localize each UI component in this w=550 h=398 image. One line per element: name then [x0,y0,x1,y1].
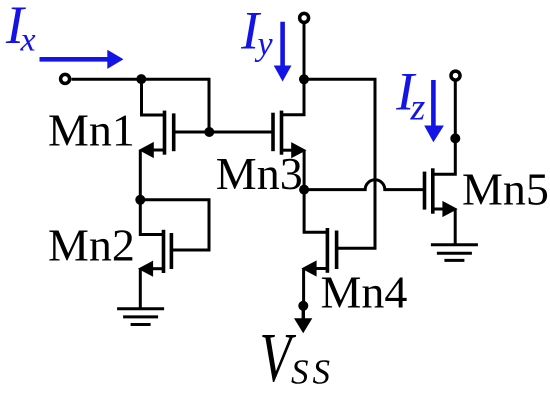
current arrow Iz [424,80,444,142]
Mn1 source lead [152,149,165,152]
wire: corner down to Mn1 gate level [208,78,211,132]
junction dot at gate rail tie [204,127,214,137]
ground symbol under Mn2 [117,309,164,325]
Mn4 source wire down to VSS [302,269,305,307]
Mn1 gate bar [172,113,176,151]
label VSS [260,320,335,397]
Mn4 drain lead from node D [304,190,327,233]
Mn4 channel bar [326,228,330,273]
transistor Mn4 [301,190,336,306]
terminal Z (open circle) [451,71,460,80]
transistor Mn5 [425,168,458,244]
node A junction dot [136,74,146,84]
Mn1 channel bar [163,111,167,155]
Mn1 source arrow [139,142,154,158]
Mn1 source wire down [139,150,142,200]
Mn3 source arrow [291,142,306,158]
wire: node C to Mn4 gate (right rail with corner) [304,79,375,248]
svg-text:x: x [20,22,36,59]
Mn2 gate bar [170,233,174,269]
svg-text:Mn1: Mn1 [48,105,135,156]
transistor Mn2 [138,200,209,309]
Mn2 channel bar [162,230,166,273]
VSS arrow [294,306,312,333]
Mn1 drain lead from node A [142,79,165,115]
Mn2 source wire to ground [139,269,142,309]
Mn5 gate bar [423,172,427,210]
label Iy [240,0,273,63]
wire: node D to Mn5 gate with hop over right rail [304,180,424,190]
wire: X terminal to node A and on to drain/gate tie corner [72,78,210,81]
VSS node dot [298,301,308,311]
Mn2 source lead [152,267,164,270]
terminal Y (open circle) [300,13,309,22]
wire: Z terminal down to Mn5 drain [433,82,456,175]
current arrow Ix [40,50,124,69]
current arrow Iy [274,22,292,82]
svg-text:Mn3: Mn3 [216,148,303,199]
label Ix [5,0,36,59]
svg-text:z: z [410,87,426,129]
Mn3 channel bar [280,111,284,155]
transistor Mn3 [273,79,306,189]
Mn3 source wire down to node D [303,150,306,189]
label Iz [395,61,425,128]
node B junction dot [135,195,145,205]
Mn5 source lead [433,208,443,211]
Mn4 gate bar [335,231,339,270]
node C junction dot [299,74,309,84]
svg-text:Mn4: Mn4 [321,267,408,318]
Mn4 source arrow [301,260,316,276]
wire: Mn1 gate to Mn3 gate (node X gate rail) [174,131,273,134]
Mn5 channel bar [431,168,435,213]
Mn5 source arrow [442,201,457,217]
svg-text:SS: SS [291,353,334,392]
Mn5 source wire to ground [454,209,457,245]
svg-text:Mn5: Mn5 [462,164,549,215]
Mn3 drain lead up to node C [282,79,305,115]
svg-text:Mn2: Mn2 [48,219,135,270]
Mn3 source lead [282,149,293,152]
node D junction dot [299,185,309,195]
Mn2 source arrow [138,261,153,277]
ground symbol under Mn5 [431,245,478,261]
svg-text:y: y [255,26,274,63]
junction dot on Z wire [450,133,460,143]
Mn3 gate bar [271,113,275,152]
transistor Mn1 [139,79,174,200]
Mn4 source lead [316,267,327,270]
Mn2 gate tie loop to node B [140,200,209,250]
Mn2 drain lead from node B [140,200,163,235]
terminal X (open circle) [61,74,70,83]
wire: Y terminal down to node C [303,24,306,80]
